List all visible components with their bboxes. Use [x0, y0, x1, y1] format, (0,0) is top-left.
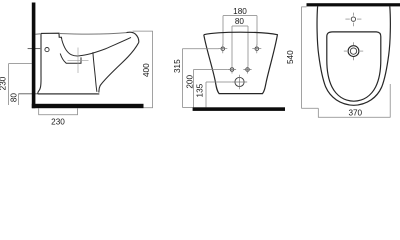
- svg-text:200: 200: [186, 75, 195, 89]
- rear leg line: [93, 52, 97, 92]
- fixture bottom line / 80 extension: [19, 93, 98, 95]
- inner rim curve (bowl sweep): [62, 37, 131, 56]
- fixing hole circle: [45, 48, 49, 52]
- dimension bracket 180 (top): [223, 16, 257, 46]
- svg-text:315: 315: [173, 59, 182, 73]
- rim connection to wall: [35, 33, 41, 35]
- drain hole double circle (crosshair): [348, 46, 359, 57]
- wall bar (thick, side view): [32, 3, 36, 109]
- rim top line to front: [59, 33, 127, 35]
- svg-text:540: 540: [286, 50, 295, 64]
- back view outline: [204, 32, 278, 93]
- svg-text:370: 370: [348, 109, 362, 118]
- bottom dimension bracket 230: [39, 108, 78, 114]
- dimension line 135 (left bracket): [206, 82, 232, 107]
- dimension line 400 (right bracket): [133, 31, 153, 108]
- drain centerlines (side view): [68, 48, 89, 74]
- dimension bracket 370 (bottom): [318, 84, 390, 117]
- front underside curve to foot: [99, 42, 139, 92]
- floor bar (thick, back view): [193, 107, 285, 111]
- svg-text:230: 230: [51, 118, 65, 127]
- dimension line 230 vertical (left bracket): [9, 64, 32, 106]
- svg-text:230: 230: [0, 76, 8, 90]
- svg-text:80: 80: [10, 93, 19, 103]
- wall bar (thick, top view): [307, 3, 400, 6]
- svg-text:135: 135: [195, 83, 204, 97]
- base line: [38, 93, 100, 95]
- wall fixing level line: [28, 48, 41, 50]
- dimension line 200 (left bracket): [194, 70, 228, 108]
- drain hole (crosshair): [235, 77, 244, 86]
- front tip curve: [127, 32, 139, 42]
- svg-text:80: 80: [235, 17, 245, 26]
- svg-text:400: 400: [142, 63, 151, 77]
- supply hole right (crosshair): [246, 68, 250, 72]
- supply hole left (crosshair): [230, 68, 234, 72]
- tap block top and step: [41, 33, 62, 40]
- dimension line 80 vertical (left bracket): [18, 94, 20, 105]
- dimension bracket 80 (top): [232, 26, 248, 67]
- tap hole (crosshair): [351, 17, 355, 21]
- top view outer outline: [317, 6, 390, 105]
- fixing hole left (crosshair): [221, 47, 225, 51]
- drain boss under bowl: [60, 54, 81, 64]
- dimension line 540 (left bracket): [302, 7, 319, 108]
- dimension line 315 (left bracket): [182, 49, 218, 108]
- bidet side profile: back edge and pedestal: [38, 33, 41, 94]
- floor bar (thick, side view): [32, 104, 144, 108]
- svg-text:180: 180: [233, 7, 247, 16]
- top view inner bowl outline: [327, 32, 381, 101]
- fixing hole right (crosshair): [255, 47, 259, 51]
